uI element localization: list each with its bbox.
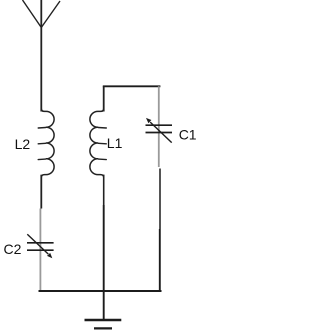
wire: L2 to C2 (black part) [40,175,42,209]
bottom wire [39,290,162,292]
capacitor C1 (variable) [146,125,173,132]
antenna [23,0,61,28]
svg-text:L1: L1 [107,135,123,151]
svg-text:C1: C1 [179,126,197,142]
C2 arrow [27,234,48,254]
top wire of tank [103,85,161,87]
svg-text:L2: L2 [15,136,31,152]
capacitor C2 (variable) [27,243,54,250]
svg-text:C2: C2 [4,241,22,257]
wire: L1 down to bottom wire [103,175,105,205]
wire: black right branch below C1 to bottom wire [159,169,161,230]
C1 arrow [150,122,172,143]
wire: gray right branch through C1 [158,86,160,167]
inductor L2 [41,109,54,178]
inductor L1 [90,109,104,178]
ground [85,319,122,321]
wire: top wire down to L1 [103,86,105,111]
wire: gray part through C2 down to bottom wire [39,209,41,291]
wire: antenna lead down to L2 [40,0,42,112]
wire: junction to ground [103,291,105,320]
